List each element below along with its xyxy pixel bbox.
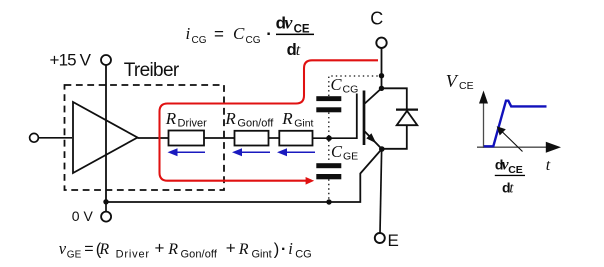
svg-text:C: C	[233, 24, 245, 43]
svg-text:Gint: Gint	[252, 249, 272, 261]
slope pointer line	[497, 126, 523, 151]
svg-text:v: v	[284, 13, 293, 33]
emitter terminal E	[375, 233, 385, 243]
svg-text:R: R	[224, 109, 236, 128]
current arrow under R_Gon/off	[232, 148, 270, 156]
node: collector/diode junction	[379, 86, 384, 91]
wire: collector terminal down	[381, 49, 383, 89]
svg-text:CE: CE	[459, 80, 474, 92]
graph t axis	[477, 142, 561, 153]
red current arrowhead into gate	[306, 177, 315, 185]
resistor R_Gint	[279, 131, 312, 146]
node: C_GE on emitter rail	[326, 199, 331, 204]
svg-text:R: R	[165, 109, 177, 128]
input terminal	[30, 133, 39, 142]
wire: R_Driver to R_Gon/off	[204, 137, 235, 139]
svg-text:=: =	[84, 241, 93, 258]
resistor R_Gon/off	[235, 131, 269, 146]
formula i_CG = C_CG · dv_CE/dt	[186, 13, 315, 60]
svg-text:t: t	[296, 42, 301, 59]
svg-text:Driver: Driver	[178, 117, 208, 129]
svg-text:Driver: Driver	[116, 249, 150, 261]
collector terminal C	[376, 38, 386, 48]
dotted wire: C_CG to gate node	[328, 113, 330, 137]
label C_CG	[331, 75, 359, 95]
dotted wire: C_CG to collector	[329, 76, 381, 96]
svg-text:CG: CG	[246, 35, 261, 46]
capacitor C_GE	[316, 163, 341, 179]
svg-text:R: R	[281, 109, 293, 128]
svg-text:CG: CG	[295, 249, 312, 261]
svg-text:·: ·	[266, 25, 272, 44]
dotted wire: C_GE to emitter rail	[328, 179, 330, 200]
node: 0V junction	[103, 199, 108, 204]
current arrow under R_Driver	[168, 148, 206, 156]
label dv_CE/dt (graph)	[495, 157, 525, 197]
svg-text:R: R	[98, 241, 109, 258]
svg-text:t: t	[546, 157, 551, 174]
svg-text:C: C	[370, 9, 383, 29]
resistor R_Driver	[169, 131, 205, 146]
node: gate junction	[326, 135, 332, 141]
label R_Gint	[281, 109, 313, 129]
dotted wire: gate node to C_GE	[328, 141, 330, 164]
capacitor C_CG	[316, 96, 341, 112]
node: dotted line on collector	[379, 73, 384, 78]
wire: 0V junction to terminal	[105, 202, 107, 212]
svg-text:i: i	[186, 24, 191, 43]
svg-text:v: v	[59, 239, 67, 258]
svg-text:=: =	[214, 25, 224, 44]
svg-text:+15 V: +15 V	[50, 50, 92, 69]
0 V terminal	[101, 212, 111, 222]
svg-text:CE: CE	[508, 164, 523, 176]
svg-text:CG: CG	[192, 35, 207, 46]
svg-text:): )	[274, 241, 280, 259]
svg-text:+: +	[226, 239, 236, 258]
svg-text:i: i	[288, 239, 293, 258]
label C_GE	[331, 142, 358, 163]
graph V axis	[479, 91, 488, 149]
svg-text:C: C	[331, 142, 343, 161]
svg-text:·: ·	[281, 241, 286, 258]
diode D1	[382, 88, 419, 149]
driver dashed box	[65, 85, 225, 190]
svg-text:C: C	[331, 75, 343, 94]
formula v_GE = (R_Driver + R_Gon/off + R_Gint) · i_CG	[59, 239, 312, 261]
wire: R_Gon/off to R_Gint	[269, 137, 280, 139]
wire: emitter terminal down	[380, 151, 382, 233]
op-amp driver triangle U1	[73, 102, 138, 173]
svg-text:Gon/off: Gon/off	[237, 117, 274, 129]
wire: emitter rail to 0V	[106, 149, 382, 202]
label R_Gon/off	[224, 109, 274, 129]
wire: R_Gint to gate node	[313, 137, 357, 139]
current arrow under R_Gint	[277, 148, 315, 156]
svg-text:Gint: Gint	[294, 117, 313, 129]
svg-text:R: R	[238, 241, 249, 258]
svg-text:CG: CG	[343, 84, 359, 96]
svg-text:CE: CE	[294, 24, 310, 36]
+15 V terminal	[101, 55, 111, 65]
wire: input to driver	[39, 137, 73, 139]
svg-text:Treiber: Treiber	[124, 60, 180, 81]
svg-text:GE: GE	[67, 250, 82, 261]
wire: driver output to R_Driver	[138, 137, 169, 139]
svg-text:+: +	[155, 239, 165, 258]
svg-text:Gon/off: Gon/off	[181, 249, 218, 261]
IGBT Q1	[357, 88, 382, 149]
svg-text:GE: GE	[343, 151, 358, 163]
wire: +15V supply vertical line	[105, 65, 107, 202]
label R_Driver	[165, 109, 207, 129]
svg-text:E: E	[388, 231, 399, 250]
V_CE curve	[484, 101, 547, 147]
label V_CE (graph)	[446, 71, 474, 92]
red Miller current path	[160, 60, 379, 180]
svg-text:0 V: 0 V	[72, 208, 94, 224]
node: emitter junction	[379, 146, 385, 152]
svg-text:R: R	[167, 241, 178, 258]
